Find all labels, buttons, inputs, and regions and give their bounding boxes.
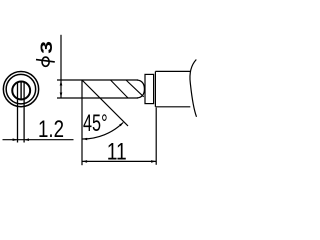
dimension 11: right arrowhead <box>151 160 156 163</box>
bevel hatch line 1 <box>111 80 129 98</box>
svg-text:45°: 45° <box>83 110 108 137</box>
dimension phi3: down arrowhead <box>60 93 63 98</box>
tip front view: outer circle <box>3 71 38 106</box>
side view: 45 deg bevel line <box>82 80 128 126</box>
blade edge line (middle) in front view <box>20 82 22 100</box>
svg-text:3: 3 <box>37 41 56 54</box>
dimension 45deg: lower arrowhead <box>82 138 87 141</box>
dimension phi3: dimension line <box>60 35 62 98</box>
sleeve left edge <box>154 71 156 106</box>
side view: blade bottom edge <box>57 97 138 99</box>
dimension phi3: label phi symbol stroke <box>36 60 55 62</box>
sleeve bottom edge <box>155 106 190 108</box>
sleeve top edge <box>155 70 190 72</box>
dimension 1.2: dimension line <box>3 139 74 141</box>
side view: blade front edge + extension line for 11 <box>81 80 83 165</box>
dimension 11: dimension line <box>82 160 156 162</box>
dimension 45deg: arc <box>82 123 123 140</box>
dimension 11: right extension line <box>155 108 157 165</box>
bevel hatch line 2 <box>126 80 144 97</box>
side view: blade top edge <box>57 79 138 81</box>
dimension phi3: up arrowhead <box>60 81 63 86</box>
dimension 1.2: left arrowhead <box>13 138 18 141</box>
dimension 1.2: right arrowhead <box>24 138 29 141</box>
dimension phi3: label phi symbol bowl <box>42 57 49 66</box>
dimension 45deg: upper arrowhead <box>119 122 123 126</box>
dimension 11: left arrowhead <box>82 160 87 163</box>
sleeve break line <box>190 60 197 117</box>
flange <box>145 74 154 103</box>
tip front view: inner circle <box>12 82 30 100</box>
svg-text:1.2: 1.2 <box>38 116 64 143</box>
blade rounded end cap <box>137 80 144 98</box>
blade left face line / extension line for 1.2 <box>17 82 19 142</box>
blade right face line / extension line for 1.2 <box>23 82 25 142</box>
tip front view: middle circle <box>6 74 36 104</box>
svg-text:11: 11 <box>107 138 127 165</box>
